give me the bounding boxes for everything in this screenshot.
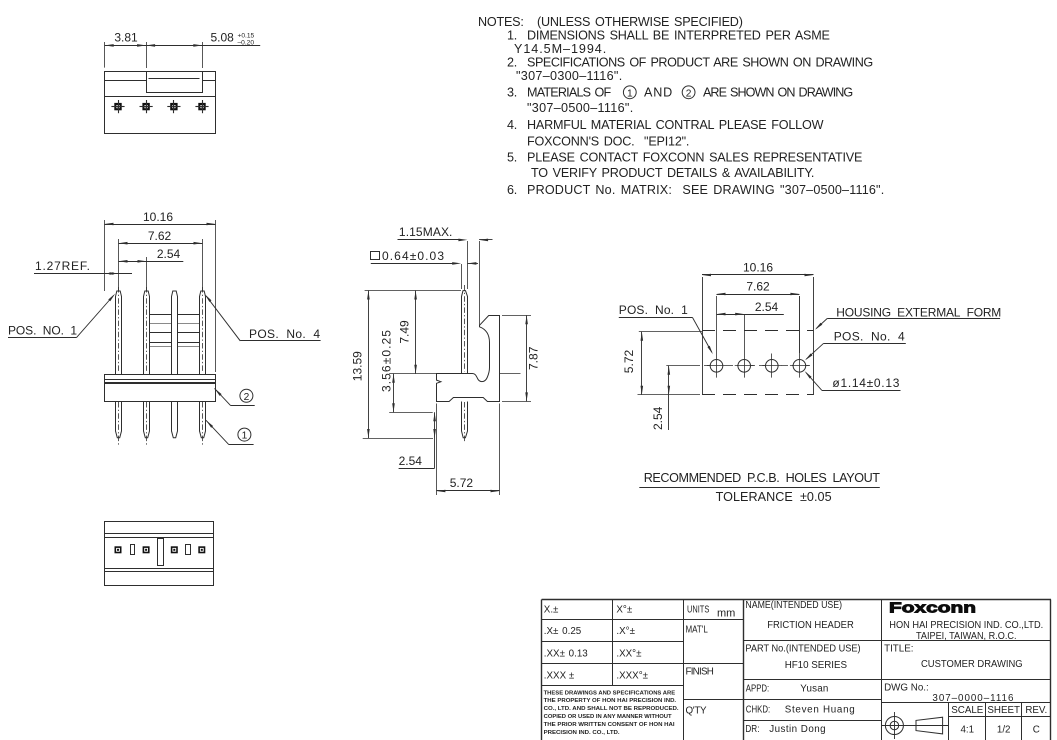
side view pin — [462, 285, 468, 443]
top view polarization tab — [147, 72, 203, 93]
front view pin 1 upper shank — [116, 287, 122, 374]
svg-text:1/2: 1/2 — [997, 725, 1011, 736]
svg-text:TO VERIFY PRODUCT DETAILS & AV: TO VERIFY PRODUCT DETAILS & AVAILABILITY… — [531, 166, 814, 180]
svg-text:1.27REF.: 1.27REF. — [35, 259, 90, 273]
svg-text:X°±: X°± — [616, 605, 632, 616]
side view housing body outline — [437, 316, 500, 402]
svg-text:THE PRIOR WRITTEN CONSENT OF H: THE PRIOR WRITTEN CONSENT OF HON HAI — [544, 722, 675, 728]
front view balloon 1 (contact pin) with leader — [205, 419, 254, 444]
svg-text:ARE SHOWN ON DRAWING: ARE SHOWN ON DRAWING — [703, 86, 853, 100]
front view pin 2 upper shank — [144, 287, 150, 374]
svg-text:.X°±: .X°± — [616, 626, 635, 637]
front view dimension 2.54 — [119, 247, 184, 291]
bottom view pin 3 (square) — [171, 546, 178, 553]
svg-text:4.: 4. — [507, 118, 517, 132]
top view pin 4 (square pin end symbol) — [195, 100, 208, 113]
svg-text:POS. No. 4: POS. No. 4 — [249, 327, 320, 341]
svg-text:2.54: 2.54 — [157, 247, 181, 261]
svg-text:.XXX°±: .XXX°± — [616, 671, 648, 682]
svg-text:ø1.14±0.13: ø1.14±0.13 — [832, 376, 899, 390]
svg-text:TOLERANCE ±0.05: TOLERANCE ±0.05 — [716, 490, 832, 504]
svg-text:COPIED OR USED IN ANY MANNER W: COPIED OR USED IN ANY MANNER WITHOUT — [544, 714, 672, 720]
svg-text:HARMFUL MATERIAL CONTRAL PLEAS: HARMFUL MATERIAL CONTRAL PLEASE FOLLOW — [527, 118, 824, 132]
side view dimension square 0.64 +/- 0.03 — [371, 249, 479, 289]
svg-text:1: 1 — [242, 431, 248, 442]
svg-text:THE PROPERTY OF HON HAI PRECIS: THE PROPERTY OF HON HAI PRECISION IND. — [544, 698, 677, 704]
svg-text:SCALE: SCALE — [951, 705, 984, 716]
top view pin 1 (square pin end symbol) — [111, 100, 124, 113]
svg-text:CUSTOMER DRAWING: CUSTOMER DRAWING — [921, 659, 1023, 670]
svg-text:HF10 SERIES: HF10 SERIES — [785, 660, 848, 671]
title block PART No cell — [745, 643, 860, 671]
pcb layout label POS. No. 1 with leader — [619, 303, 714, 355]
title block NAME cell — [745, 600, 853, 631]
svg-text:–0.20: –0.20 — [238, 39, 255, 46]
svg-text:307–0000–1116: 307–0000–1116 — [932, 693, 1014, 704]
title block UNITS cell — [687, 604, 735, 619]
svg-text:SHEET: SHEET — [987, 705, 1020, 716]
svg-text:.XX± 0.13: .XX± 0.13 — [544, 648, 589, 659]
pcb layout hole row centerline — [693, 365, 814, 367]
svg-text:X.±: X.± — [544, 605, 559, 616]
front view pin 3 lower tail — [172, 401, 178, 438]
svg-text:REV.: REV. — [1025, 705, 1047, 716]
bottom view pin 2 (square) — [143, 546, 150, 553]
svg-text:7.49: 7.49 — [398, 320, 412, 344]
pcb layout housing external form dashed outline — [702, 277, 814, 395]
svg-text:CHKD:: CHKD: — [746, 705, 770, 716]
front view dimension 1.27REF. — [34, 259, 132, 275]
front view pin 2 lower tail — [144, 401, 150, 446]
pcb layout hole 3 — [762, 354, 781, 378]
svg-text:FINISH: FINISH — [686, 667, 714, 678]
svg-text:1.15MAX.: 1.15MAX. — [399, 225, 453, 239]
front view label POS. NO. 1 with leader — [8, 293, 116, 338]
svg-text:13.59: 13.59 — [351, 351, 365, 381]
svg-text:HOUSING EXTERMAL FORM: HOUSING EXTERMAL FORM — [836, 305, 1001, 319]
svg-text:PART No.(INTENDED USE): PART No.(INTENDED USE) — [745, 643, 860, 654]
title block company name — [889, 620, 1043, 642]
svg-text:"307–0300–1116".: "307–0300–1116". — [516, 69, 622, 83]
svg-text:5.72: 5.72 — [450, 476, 474, 490]
svg-text:PRODUCT No. MATRIX: SEE DRAWI: PRODUCT No. MATRIX: SEE DRAWING "307–050… — [527, 183, 884, 197]
svg-text:.XXX ±: .XXX ± — [544, 671, 575, 682]
third angle projection symbol — [881, 712, 948, 739]
svg-text:DWG No.:: DWG No.: — [884, 683, 929, 694]
side view dimension 5.72 (base width) — [436, 404, 499, 496]
top view pin 2 (square pin end symbol) — [140, 100, 153, 113]
svg-text:DIMENSIONS SHALL BE INTERPRETE: DIMENSIONS SHALL BE INTERPRETED PER ASME — [527, 29, 830, 43]
bottom view center slot — [158, 539, 164, 566]
svg-text:3.: 3. — [507, 86, 517, 100]
svg-text:2.54: 2.54 — [755, 300, 779, 314]
svg-text:C: C — [1033, 725, 1040, 736]
pcb layout dimension 7.62 — [717, 280, 800, 353]
pcb layout dimension diameter 1.14 +/- 0.13 with leader — [804, 370, 901, 390]
svg-text:10.16: 10.16 — [743, 261, 773, 275]
pcb layout dimension 2.54 — [717, 300, 784, 316]
pcb layout hole 1 — [707, 315, 726, 378]
bottom view pin 1 (square) — [115, 546, 122, 553]
pcb layout label POS. No. 4 with leader — [804, 330, 906, 362]
title block QTY cell — [686, 706, 707, 717]
title block DWG No cell — [884, 683, 1014, 704]
svg-text:TAIPEI, TAIWAN, R.O.C.: TAIPEI, TAIWAN, R.O.C. — [916, 631, 1017, 642]
title block FINISH cell — [686, 667, 714, 678]
svg-text:MAT'L: MAT'L — [686, 625, 709, 636]
note 3 circled 2 symbol — [682, 86, 695, 100]
svg-text:2.: 2. — [507, 56, 517, 70]
side view dimension 7.87 (housing height) — [500, 315, 541, 401]
svg-text:7.62: 7.62 — [148, 229, 172, 243]
svg-text:5.08: 5.08 — [211, 30, 235, 44]
side view dimension 2.54 (pin tail) — [399, 412, 436, 468]
svg-text:4:1: 4:1 — [960, 725, 974, 736]
svg-text:POS. No. 1: POS. No. 1 — [619, 303, 688, 317]
svg-text:MATERIALS OF: MATERIALS OF — [527, 86, 612, 100]
front view pin 4 lower tail — [200, 401, 206, 446]
svg-text:"307–0500–1116".: "307–0500–1116". — [527, 101, 633, 115]
notes text block — [478, 15, 884, 197]
svg-text:NOTES:: NOTES: — [478, 15, 524, 29]
svg-text:3.56±0.25: 3.56±0.25 — [380, 330, 394, 392]
front view label POS. No. 4 with leader — [204, 293, 321, 341]
svg-text:5.: 5. — [507, 151, 517, 165]
svg-text:AND: AND — [644, 86, 672, 100]
svg-text:Steven Huang: Steven Huang — [785, 705, 855, 716]
svg-text:0.64±0.03: 0.64±0.03 — [382, 249, 444, 263]
side view dimension 3.56 +/- 0.25 — [380, 330, 437, 413]
svg-text:FOXCONN'S DOC. "EPI12".: FOXCONN'S DOC. "EPI12". — [527, 135, 689, 149]
side view dimension 7.49 — [398, 291, 417, 374]
pcb layout caption TOLERANCE +/- 0.05 — [716, 490, 832, 504]
svg-text:1.: 1. — [507, 29, 517, 43]
svg-text:POS. NO. 1: POS. NO. 1 — [8, 324, 77, 338]
title block APPD row — [746, 683, 829, 694]
front view housing base — [105, 375, 216, 402]
svg-text:CO., LTD. AND SHALL NOT BE REP: CO., LTD. AND SHALL NOT BE REPRODUCED. — [544, 706, 679, 712]
svg-text:2.54: 2.54 — [399, 454, 423, 468]
bottom view body outline — [104, 522, 214, 586]
svg-text:.XX°±: .XX°± — [616, 648, 642, 659]
svg-text:7.62: 7.62 — [746, 280, 770, 294]
title block MATL cell — [686, 625, 709, 636]
svg-text:3.81: 3.81 — [114, 30, 138, 44]
svg-text:THESE DRAWINGS AND SPECIFICATI: THESE DRAWINGS AND SPECIFICATIONS ARE — [544, 690, 676, 696]
top view body outline — [105, 72, 216, 134]
svg-text:2: 2 — [244, 392, 250, 403]
svg-text:RECOMMENDED P.C.B. HOLES LA: RECOMMENDED P.C.B. HOLES LAYOUT — [644, 471, 881, 485]
svg-text:FRICTION HEADER: FRICTION HEADER — [767, 620, 854, 631]
svg-text:PLEASE CONTACT FOXCONN SALES R: PLEASE CONTACT FOXCONN SALES REPRESENTAT… — [527, 151, 862, 165]
bottom view pin 4 (square) — [198, 546, 205, 553]
pcb layout hole 4 — [790, 296, 809, 378]
svg-text:Yusan: Yusan — [800, 683, 828, 694]
svg-text:Y14.5M–1994.: Y14.5M–1994. — [514, 42, 606, 56]
svg-text:mm: mm — [717, 608, 735, 620]
front view housing wall edge lines between pins — [150, 315, 199, 347]
svg-text:.X± 0.25: .X± 0.25 — [544, 626, 582, 637]
svg-text:7.87: 7.87 — [526, 346, 540, 370]
pcb layout dimension 5.72 (vertical) — [622, 332, 702, 395]
svg-text:DR:: DR: — [745, 724, 759, 735]
svg-text:POS. No. 4: POS. No. 4 — [834, 330, 905, 344]
foxconn logo — [889, 600, 976, 617]
svg-text:SPECIFICATIONS OF PRODUCT ARE: SPECIFICATIONS OF PRODUCT ARE SHOWN ON D… — [527, 56, 873, 70]
pcb layout caption RECOMMENDED P.C.B. HOLES LAYOUT — [639, 471, 880, 487]
title block frame and grid — [542, 600, 1052, 740]
side view dimension 1.15MAX. — [398, 225, 493, 326]
svg-text:APPD:: APPD: — [746, 683, 769, 694]
svg-text:Q'TY: Q'TY — [686, 706, 707, 717]
svg-text:2.54: 2.54 — [651, 406, 665, 430]
svg-text:TITLE:: TITLE: — [884, 644, 913, 655]
title block DR row — [745, 724, 825, 735]
note 3 circled 1 symbol — [623, 86, 636, 100]
front view balloon 2 (housing) with leader — [214, 388, 255, 406]
svg-text:2: 2 — [686, 89, 692, 100]
svg-text:UNITS: UNITS — [687, 604, 710, 615]
svg-text:PRECISION IND. CO., LTD.: PRECISION IND. CO., LTD. — [544, 730, 620, 736]
front view pin 4 upper shank — [200, 287, 206, 374]
svg-text:5.72: 5.72 — [622, 349, 636, 373]
top view pin 3 (square pin end symbol) — [167, 100, 180, 113]
title block legal disclaimer text — [544, 690, 679, 736]
svg-text:6.: 6. — [507, 183, 517, 197]
front view pin 1 lower tail — [116, 401, 122, 446]
pcb layout hole 2 — [735, 315, 754, 378]
front view pin 3 upper shank — [172, 291, 178, 374]
title block tolerance column texts — [544, 605, 649, 682]
svg-text:Justin Dong: Justin Dong — [769, 724, 825, 735]
top view dimension 5.08 +0.15/-0.20 — [146, 30, 260, 68]
bottom view small slot left — [131, 545, 135, 555]
svg-text:HON HAI PRECISION IND. CO.,LTD: HON HAI PRECISION IND. CO.,LTD. — [889, 620, 1043, 631]
front view dimension 10.16 — [105, 210, 216, 372]
top view dimension 3.81 — [105, 30, 147, 68]
side view dimension 13.59 — [351, 291, 462, 439]
pcb layout dimension 2.54 (vertical) — [651, 366, 693, 431]
svg-text:(UNLESS OTHERWISE SPECIFIED): (UNLESS OTHERWISE SPECIFIED) — [537, 15, 743, 29]
bottom view small slot right — [186, 545, 191, 555]
pcb layout dimension 10.16 — [702, 261, 814, 277]
pcb layout label HOUSING EXTERMAL FORM with leader — [814, 305, 1001, 330]
svg-text:1: 1 — [627, 89, 633, 100]
front view dimension 7.62 — [119, 229, 203, 291]
svg-text:Foxconn: Foxconn — [889, 600, 976, 617]
title block CHKD row — [746, 705, 855, 716]
title block TITLE cell — [884, 644, 1023, 670]
svg-text:NAME(INTENDED USE): NAME(INTENDED USE) — [745, 600, 842, 611]
title block SCALE SHEET REV cells — [951, 705, 1047, 736]
svg-text:10.16: 10.16 — [143, 210, 173, 224]
